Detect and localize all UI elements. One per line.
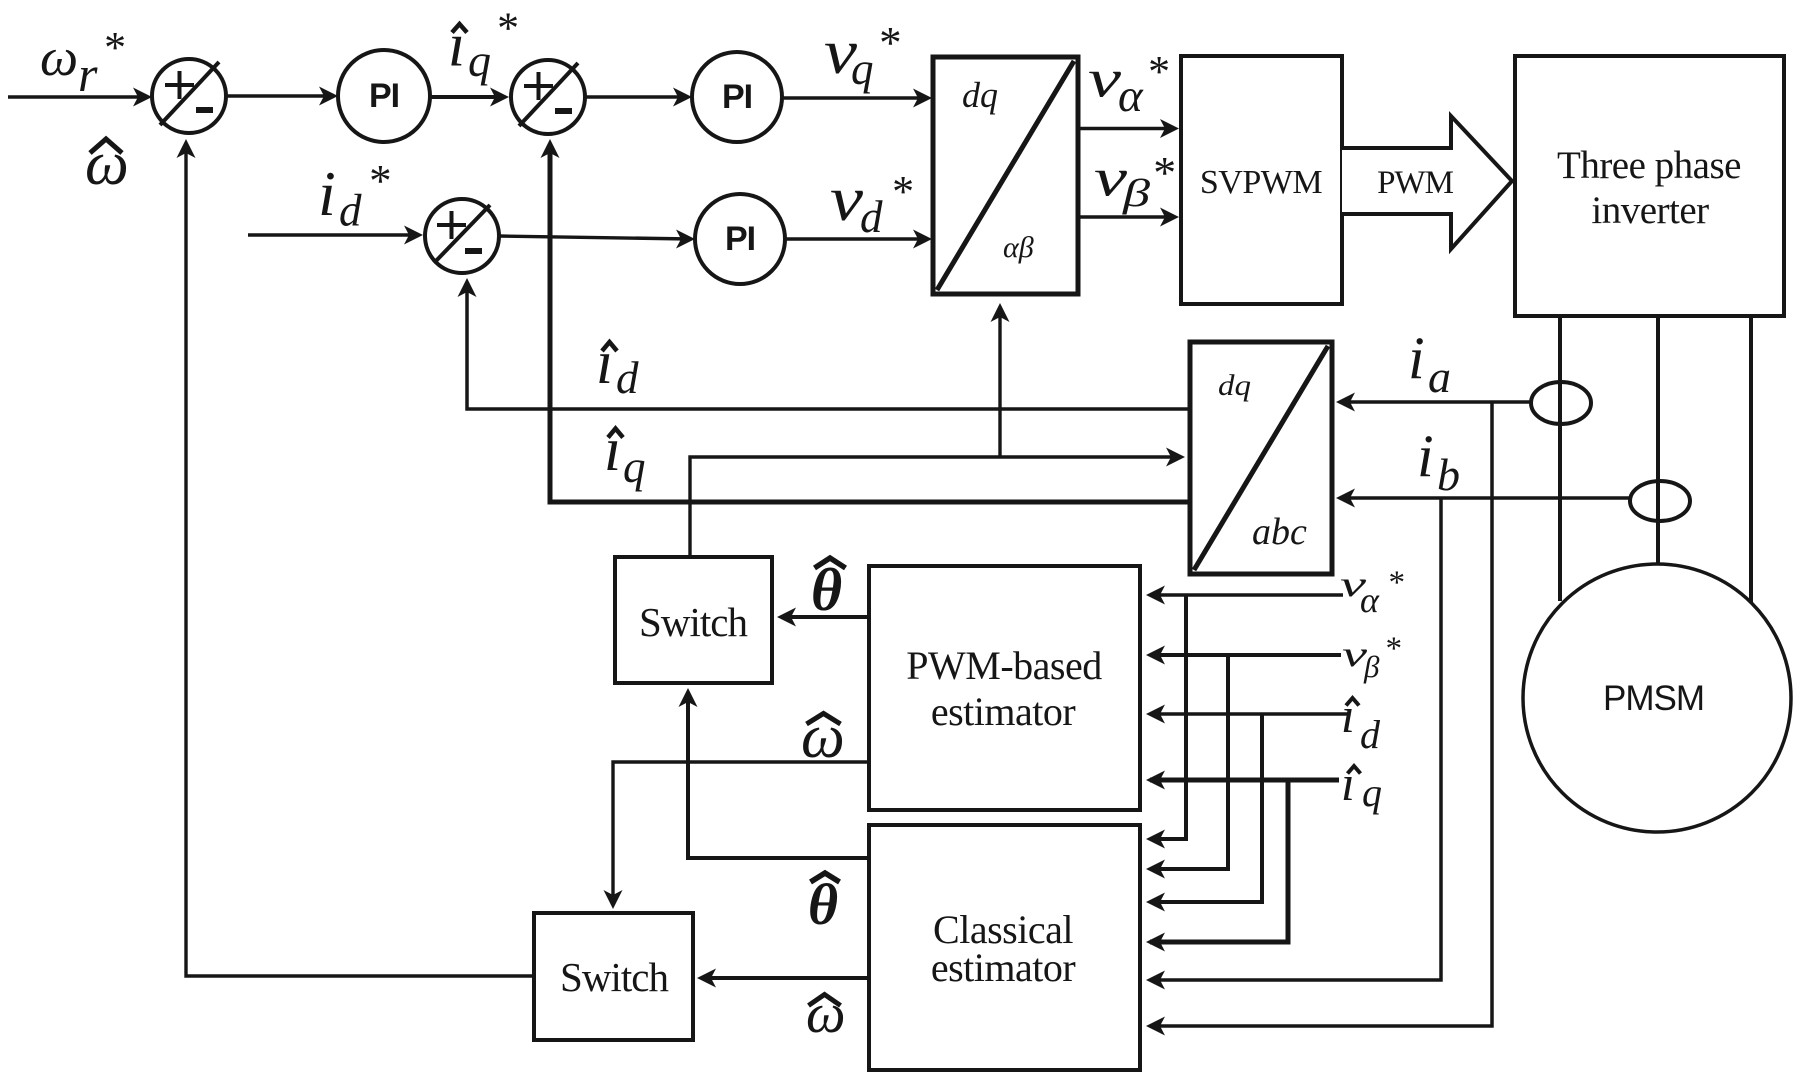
summing junction S3 bbox=[425, 199, 499, 273]
svg-text:i: i bbox=[1408, 325, 1425, 391]
wire i_b bbox=[1341, 496, 1630, 499]
wire i_a tap to Classical bbox=[1150, 402, 1492, 1026]
svg-text:*: * bbox=[367, 156, 390, 206]
current sensor CT2 bbox=[1630, 481, 1690, 521]
PMSM motor bbox=[1523, 564, 1791, 832]
svg-text:ı: ı bbox=[1341, 755, 1355, 811]
svg-text:dq: dq bbox=[962, 75, 998, 115]
svg-text:ı: ı bbox=[596, 329, 613, 397]
wire inverter phase c bbox=[1749, 316, 1753, 603]
svg-text:PMSM: PMSM bbox=[1603, 679, 1704, 718]
svg-text:α: α bbox=[1360, 580, 1380, 620]
wire inverter phase b bbox=[1656, 316, 1660, 566]
wire S1 to PI1 bbox=[226, 94, 334, 97]
svg-text:PI: PI bbox=[722, 78, 752, 116]
op-amp PI1 bbox=[338, 50, 430, 142]
svg-text:estimator: estimator bbox=[931, 945, 1076, 990]
svg-text:inverter: inverter bbox=[1591, 189, 1709, 232]
wire theta_hat Classical estimator to Switch1 bbox=[688, 696, 869, 858]
svg-text:Switch: Switch bbox=[639, 599, 747, 645]
wire PI2 to dq block (v_q*) bbox=[782, 96, 927, 99]
Switch 1 block bbox=[615, 557, 772, 683]
dq/alphabeta transform block bbox=[933, 57, 1078, 294]
svg-text:dq: dq bbox=[1218, 369, 1251, 402]
wire theta branch to dq/alphabeta bbox=[998, 314, 1001, 457]
wire i_hat_d into PWM estimator bbox=[1150, 712, 1349, 716]
svg-text:i: i bbox=[318, 158, 336, 229]
wire S3 to PI3 bbox=[499, 236, 691, 239]
svg-text:*: * bbox=[877, 18, 900, 68]
wire i_hat_d feedback bbox=[467, 288, 1190, 409]
svg-text:d: d bbox=[860, 192, 883, 242]
svg-text:b: b bbox=[1437, 449, 1460, 500]
svg-text:αβ: αβ bbox=[1003, 231, 1034, 264]
wire omega_hat Classical estimator to Switch2 bbox=[701, 976, 869, 980]
svg-text:d: d bbox=[339, 186, 362, 236]
svg-text:ı: ı bbox=[448, 12, 465, 80]
svg-text:PWM-based: PWM-based bbox=[906, 643, 1102, 688]
Three phase inverter block bbox=[1515, 56, 1784, 316]
svg-text:*: * bbox=[102, 23, 124, 72]
wire i_hat_d tap to Classical bbox=[1150, 714, 1262, 902]
wire i_d* input bbox=[248, 233, 419, 236]
svg-text:PI: PI bbox=[369, 77, 399, 115]
wire omega_r* input bbox=[8, 95, 148, 98]
svg-text:*: * bbox=[890, 167, 912, 216]
svg-text:d: d bbox=[1360, 712, 1381, 757]
svg-text:*: * bbox=[1146, 47, 1168, 96]
svg-text:Switch: Switch bbox=[560, 954, 668, 1000]
svg-text:*: * bbox=[1151, 147, 1174, 198]
wire i_a bbox=[1341, 400, 1531, 403]
svg-text:r: r bbox=[78, 46, 98, 102]
summing junction S1 bbox=[152, 59, 226, 133]
svg-text:q: q bbox=[1362, 770, 1382, 815]
wire omega feedback to S1 bbox=[186, 148, 534, 976]
svg-text:Three phase: Three phase bbox=[1557, 144, 1741, 187]
PWM block arrow bbox=[1342, 116, 1512, 249]
wire theta_hat PWM estimator to Switch1 bbox=[781, 615, 869, 619]
Classical estimator block bbox=[869, 825, 1140, 1070]
wire v_beta* tap to Classical bbox=[1150, 655, 1228, 869]
svg-text:ω: ω bbox=[40, 27, 78, 87]
svg-text:*: * bbox=[1387, 565, 1404, 601]
svg-text:β: β bbox=[1122, 172, 1151, 215]
svg-text:d: d bbox=[616, 353, 639, 403]
wire inverter phase a bbox=[1558, 316, 1562, 601]
dq/abc transform block bbox=[1190, 342, 1332, 574]
PWM-based estimator block bbox=[869, 566, 1140, 810]
Switch 2 block bbox=[534, 913, 693, 1040]
wire i_hat_q feedback bbox=[550, 148, 1190, 502]
SVPWM block bbox=[1181, 56, 1342, 304]
svg-text:v: v bbox=[830, 163, 864, 234]
op-amp PI2 bbox=[692, 52, 782, 142]
wire S2 to PI2 bbox=[585, 95, 688, 98]
svg-text:q: q bbox=[623, 442, 646, 492]
wire v_alpha* to SVPWM bbox=[1078, 127, 1173, 130]
op-amp PI3 bbox=[695, 194, 785, 284]
wire i_hat_q into PWM estimator bbox=[1150, 778, 1339, 783]
svg-text:SVPWM: SVPWM bbox=[1200, 164, 1322, 201]
svg-text:*: * bbox=[1384, 631, 1401, 667]
wire v_beta* to SVPWM bbox=[1078, 215, 1173, 218]
svg-text:*: * bbox=[495, 4, 517, 53]
svg-text:PI: PI bbox=[725, 220, 755, 258]
wire v_alpha* tap to Classical bbox=[1150, 595, 1186, 839]
wire theta to transform blocks bbox=[690, 457, 1181, 557]
svg-text:ı: ı bbox=[604, 416, 621, 484]
svg-text:β: β bbox=[1363, 649, 1380, 684]
current sensor CT1 bbox=[1531, 382, 1591, 424]
svg-text:v: v bbox=[1088, 49, 1121, 109]
svg-text:i: i bbox=[1417, 423, 1434, 489]
wire v_alpha* into PWM estimator bbox=[1150, 593, 1343, 597]
svg-text:PWM: PWM bbox=[1377, 165, 1454, 201]
svg-text:α: α bbox=[1118, 70, 1144, 122]
summing junction S2 bbox=[511, 60, 585, 134]
wire i_b tap to Classical bbox=[1150, 498, 1441, 980]
svg-text:estimator: estimator bbox=[931, 689, 1076, 734]
svg-text:ω: ω bbox=[806, 983, 846, 1045]
wire omega_hat PWM estimator to Switch2 bbox=[613, 762, 869, 904]
wire PI3 to dq block (v_d*) bbox=[785, 237, 927, 240]
svg-text:abc: abc bbox=[1252, 511, 1307, 553]
svg-text:a: a bbox=[1428, 351, 1451, 402]
wire i_hat_q tap to Classical bbox=[1150, 780, 1288, 942]
svg-text:q: q bbox=[851, 44, 874, 94]
wire PI1 to S2 bbox=[430, 95, 505, 99]
svg-text:q: q bbox=[468, 35, 491, 86]
wire v_beta* into PWM estimator bbox=[1150, 653, 1341, 657]
